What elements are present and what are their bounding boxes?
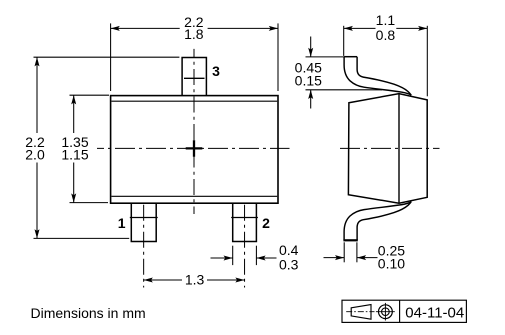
svg-text:2.0: 2.0	[25, 147, 45, 163]
svg-text:1.15: 1.15	[61, 147, 88, 163]
svg-text:1.1: 1.1	[376, 12, 396, 28]
svg-text:0.15: 0.15	[295, 73, 322, 89]
svg-text:3: 3	[212, 63, 220, 79]
svg-text:1: 1	[118, 215, 126, 231]
svg-text:Dimensions in mm: Dimensions in mm	[31, 305, 146, 321]
svg-text:1.8: 1.8	[184, 26, 204, 42]
svg-text:2: 2	[262, 215, 270, 231]
svg-text:0.3: 0.3	[279, 257, 299, 273]
svg-text:04-11-04: 04-11-04	[405, 304, 464, 321]
svg-text:0.8: 0.8	[376, 27, 396, 43]
svg-text:1.3: 1.3	[185, 272, 205, 288]
svg-text:0.10: 0.10	[378, 256, 405, 272]
